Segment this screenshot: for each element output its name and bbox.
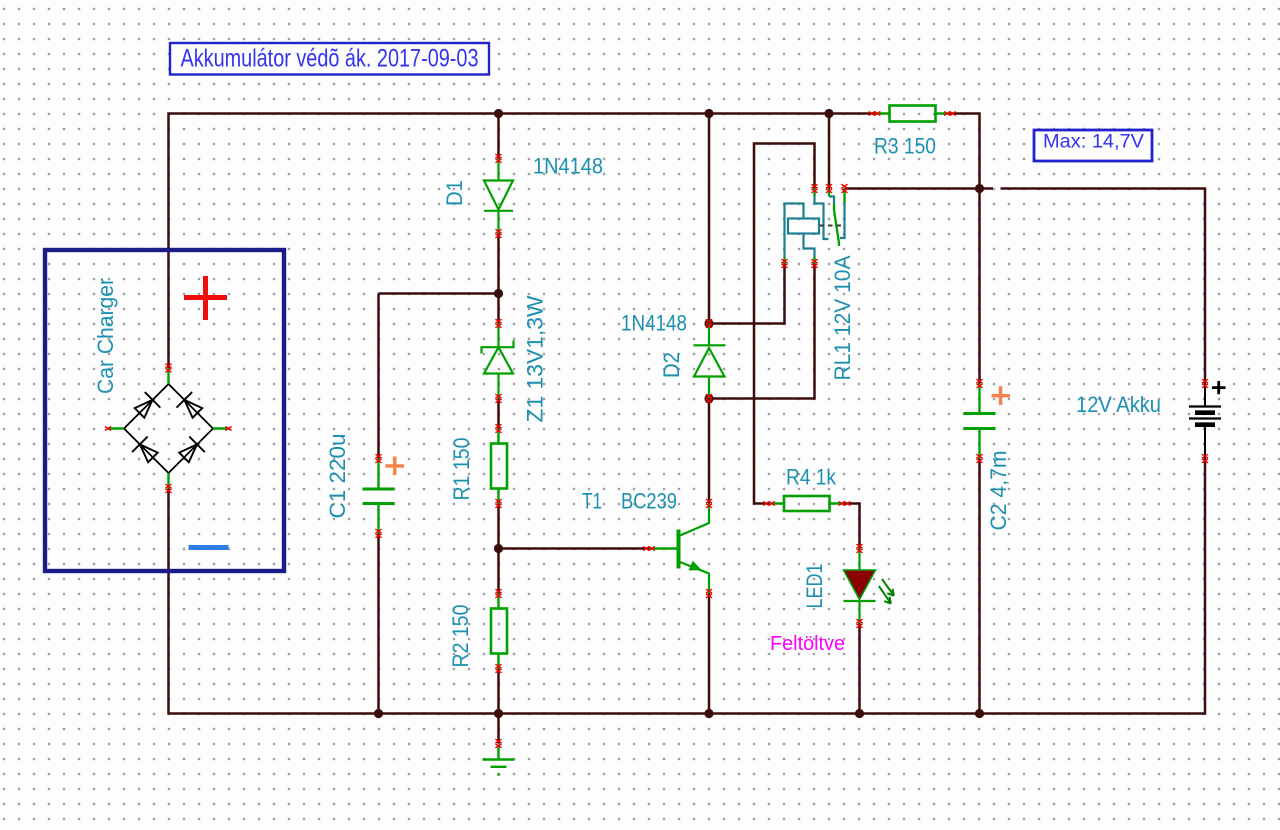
wire left bus lower + bottom bus + battery bottom (169, 459, 1206, 714)
relay RL1 coil (788, 219, 819, 234)
relay pin NO (841, 184, 847, 193)
junction bottom bus / T1 emitter (704, 709, 713, 718)
relay NO stub (843, 189, 845, 203)
svg-text:R4 1k: R4 1k (786, 465, 837, 490)
R1 stubs (497, 429, 499, 504)
resistor R4 (784, 496, 830, 511)
wire D1 chain x=499 (497, 114, 500, 744)
junction bottom bus / R2 ground (494, 709, 503, 718)
wire top bus + left bus upper (169, 114, 875, 369)
svg-text:12V Akku: 12V Akku (1076, 392, 1161, 417)
R3 pin right (944, 112, 956, 116)
relay common stub (813, 189, 815, 197)
max voltage box (1034, 130, 1152, 161)
junction top bus / D1 (494, 109, 503, 118)
R2 pin bottom (495, 664, 501, 673)
T1 pin emitter (706, 589, 712, 598)
bridge diode D-c (bottom to left) (132, 437, 161, 466)
capacitor C1 (363, 459, 395, 534)
T1 emitter lead (680, 562, 709, 594)
transistor T1 base bar (677, 530, 681, 569)
wire D2/T1 chain x=709 (708, 114, 711, 714)
svg-text:R2 150: R2 150 (448, 605, 473, 668)
LED1 arrows (879, 579, 894, 604)
T1 emitter arrow (689, 561, 702, 571)
diode D2 symbol (694, 324, 726, 399)
Car Charger box (45, 250, 284, 571)
junction top bus / relay feed (824, 109, 833, 118)
wire top bus to relay common feed (828, 114, 831, 189)
bridge pin top (165, 364, 171, 373)
relay coil lead A (785, 204, 804, 258)
zener Z1 symbol (482, 324, 514, 399)
wire R4 to LED1 (845, 504, 860, 549)
svg-text:R1 150: R1 150 (449, 438, 474, 501)
C1 pin bottom (375, 529, 381, 538)
svg-text:D1: D1 (442, 180, 467, 206)
LED1 pin bottom (856, 619, 862, 628)
R3 pin left (869, 112, 881, 116)
diode D1 symbol (484, 159, 513, 234)
T1 collector lead (680, 504, 709, 536)
D1 pin top (495, 154, 501, 163)
junction top bus / D2 branch (704, 109, 713, 118)
bridge pin bottom (165, 484, 171, 493)
svg-text:T1: T1 (582, 489, 602, 514)
C2 pin bottom (976, 454, 982, 463)
relay coil pin A (781, 259, 787, 268)
Z1 pin top (495, 319, 501, 328)
junction Z1 / C1 link (494, 289, 503, 298)
Z1 pin bottom (495, 394, 501, 403)
junction D2 anode (704, 394, 713, 403)
ground pin (495, 739, 501, 748)
T1 pin base (643, 547, 655, 551)
battery plus sign (1212, 381, 1226, 394)
title box (170, 43, 489, 75)
wire T1 base from divider (499, 547, 650, 550)
junction bottom bus / C2 (975, 709, 984, 718)
charger minus symbol (189, 545, 229, 550)
wire C2 branch (978, 189, 981, 714)
resistor R1 (491, 444, 507, 489)
svg-text:Z1 13V1,3W: Z1 13V1,3W (523, 295, 548, 422)
svg-text:C1 220u: C1 220u (325, 434, 350, 519)
svg-text:1N4148: 1N4148 (533, 154, 603, 179)
relay pin armature (826, 184, 832, 193)
battery pin bottom (1202, 454, 1208, 463)
svg-text:Max: 14,7V: Max: 14,7V (1043, 132, 1144, 153)
relay common contact lead (815, 196, 829, 239)
bridge diode D-d (bottom to right) (176, 437, 205, 466)
bridge pin left (105, 427, 111, 431)
wire D2 cathode to relay coil pin A (709, 264, 785, 324)
R4 stubs (769, 502, 845, 504)
svg-text:1N4148: 1N4148 (621, 311, 687, 336)
bridge pin right (225, 427, 231, 431)
D1 pin bottom (495, 229, 501, 238)
relay coil pin stubs (785, 257, 815, 264)
svg-text:RL1 12V 10A: RL1 12V 10A (830, 255, 855, 380)
relay armature blade (834, 204, 839, 246)
svg-text:D2: D2 (659, 352, 684, 378)
T1 pin collector (706, 499, 712, 508)
junction R1/R2 divider to T1 base (494, 544, 503, 553)
wire D2 anode to relay coil pin B (709, 264, 815, 399)
C2 pin top (976, 379, 982, 388)
R2 stubs (497, 594, 499, 669)
relay coil pin B (811, 259, 817, 268)
R2 pin top (495, 589, 501, 598)
R4 pin left (763, 502, 775, 506)
ground symbol (483, 746, 515, 775)
wire node A to battery top (1001, 189, 1206, 384)
D2 pin bottom (706, 394, 712, 403)
relay coil lead B (804, 234, 815, 258)
C1 polarity plus (386, 457, 405, 476)
relay mechanical link dashed (820, 225, 844, 227)
wire LED1 to bottom bus (858, 624, 861, 714)
LED1 triangle (844, 570, 876, 600)
charger plus symbol (184, 276, 227, 320)
junction bottom bus / LED1 (855, 709, 864, 718)
svg-text:C2 4,7m: C2 4,7m (986, 451, 1011, 531)
T1 base lead (649, 547, 677, 549)
R1 pin bottom (495, 499, 501, 508)
wire C1 branch and link to Z1 node (379, 294, 499, 714)
battery pin top (1202, 379, 1208, 388)
battery B1 12V Akku (1189, 384, 1221, 459)
svg-text:R3 150: R3 150 (874, 134, 936, 159)
resistor R3 (890, 106, 936, 122)
relay pin common (811, 184, 817, 193)
R3 stubs (875, 112, 951, 114)
relay armature feed lead (829, 197, 834, 205)
bridge diode D-a (left to top) (132, 392, 161, 421)
bridge pin stubs (108, 368, 229, 489)
C1 pin top (375, 454, 381, 463)
junction node A (975, 184, 984, 193)
LED1 pin top (856, 544, 862, 553)
resistor R2 (491, 609, 507, 654)
svg-text:BC239: BC239 (621, 489, 677, 514)
wire relay common contact loop to R4 (754, 144, 815, 504)
R4 pin right (839, 502, 851, 506)
capacitor C2 (964, 384, 996, 459)
LED1 symbol (844, 549, 876, 624)
wire from R3 to right corner down to node (950, 114, 980, 189)
relay NO contact lead (840, 203, 845, 238)
wire relay NO contact to node A (845, 187, 994, 190)
bridge rectifier diamond wires (124, 384, 213, 473)
svg-text:Car Charger: Car Charger (93, 278, 118, 394)
relay armature feed stub (828, 189, 830, 197)
R1 pin top (495, 424, 501, 433)
svg-text:LED1: LED1 (802, 564, 827, 609)
svg-text:Akkumulátor védõ ák. 2017-09-0: Akkumulátor védõ ák. 2017-09-03 (181, 45, 479, 73)
junction bottom bus / C1 (374, 709, 383, 718)
junction D2 cathode (704, 319, 713, 328)
D2 pin top (706, 319, 712, 328)
svg-text:Feltöltve: Feltöltve (770, 633, 845, 655)
bridge diode D-b (right to top) (177, 392, 206, 421)
C2 polarity plus (992, 386, 1011, 405)
